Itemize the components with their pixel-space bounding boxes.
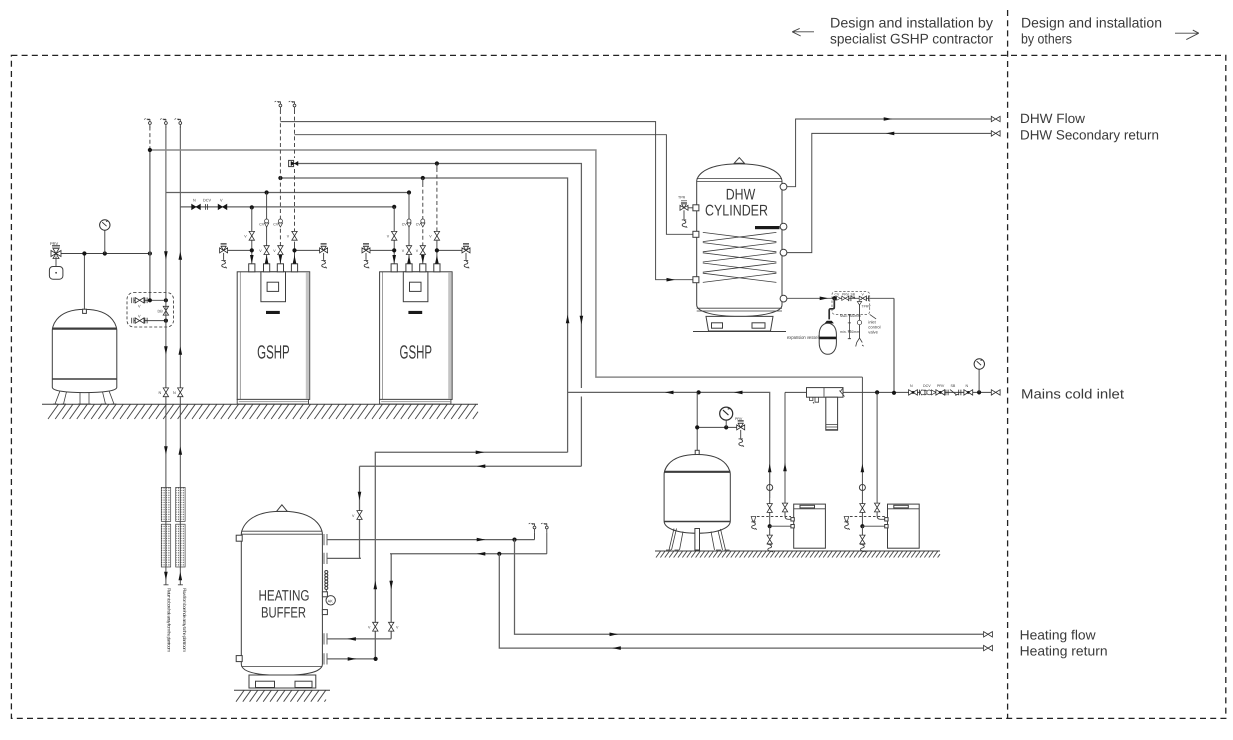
- small vessel / tundish box below PRV: [55, 257, 57, 267]
- wire: mains top-up down to unit A: [785, 392, 791, 519]
- wire: DHW primary return manifold y=134.7: [295, 135, 697, 235]
- wire: heating return from boundary: [499, 554, 983, 648]
- temperature & pressure relief valve on cylinder: [680, 201, 688, 211]
- drain below unit A tee: [769, 526, 771, 536]
- svg-text:PRV: PRV: [842, 293, 850, 297]
- buffer right small ports: [322, 592, 327, 597]
- svg-text:by others: by others: [1021, 31, 1072, 47]
- left ports: [693, 205, 699, 211]
- dashed separator line (contractor / others): [1007, 10, 1009, 718]
- inlet control valve dashed enclosure: [832, 292, 870, 315]
- wire: ground loop expansion line y=253.5: [56, 253, 150, 255]
- flow arrows heating risers: [566, 315, 570, 324]
- wire: buffer hot inlet (from GSHP flow riser): [328, 466, 361, 558]
- boundary valve heating return: [984, 645, 993, 650]
- wire: heating return manifold y=178: [280, 178, 567, 452]
- node: junction gauge stem: [103, 251, 107, 255]
- air vent pipe extensions at left manifold: [149, 127, 151, 151]
- wire: heating flow manifold y=163.5: [295, 164, 582, 467]
- wire: cold feed into cylinder: [787, 297, 832, 299]
- pipe GSHP2-1: [393, 207, 395, 264]
- pressure gauge (ground loop): [104, 230, 106, 254]
- wire: brine manifold y=206.9: [180, 206, 394, 208]
- wire: buffer lower port to heating return: [328, 554, 547, 639]
- node on cold feed: [832, 296, 836, 300]
- svg-text:DB: DB: [158, 310, 164, 314]
- filling loop dashed enclosure: [127, 293, 174, 327]
- relief valve PRV (ground loop): [51, 246, 61, 259]
- ground hatch under left tank and GSHP units: [42, 404, 478, 419]
- right ports: [780, 183, 787, 190]
- node and pressure gauge on mains: [977, 390, 981, 394]
- inlet group valves: [832, 297, 894, 299]
- wire: expansion branch from heating riser: [568, 392, 770, 498]
- wire: buffer top port to heating flow: [328, 539, 535, 541]
- svg-text:Max. 600mm: Max. 600mm: [840, 314, 861, 318]
- wire: branch to DHW expansion vessel: [829, 298, 834, 319]
- pipe GSHP2-4: [436, 168, 438, 243]
- svg-text:N: N: [910, 384, 913, 388]
- air vent on heating flow: [534, 532, 536, 540]
- svg-text:specialist GSHP contractor: specialist GSHP contractor: [830, 31, 993, 47]
- tundish for unit A: [757, 516, 791, 518]
- buffer right flanged ports: [324, 534, 327, 665]
- wire: tank stem up to expansion line: [83, 254, 85, 310]
- node: junction on pipe 149.9: [148, 251, 152, 255]
- svg-text:N: N: [159, 391, 162, 395]
- svg-text:CYLINDER: CYLINDER: [705, 203, 768, 220]
- svg-text:SB: SB: [851, 293, 856, 297]
- svg-text:PRV: PRV: [735, 417, 743, 421]
- air vent on heating return: [546, 532, 548, 554]
- borehole pipe end ticks: [164, 584, 183, 586]
- wire: cold feed riser down to mains: [893, 298, 895, 393]
- svg-text:N: N: [193, 199, 196, 203]
- unit A cabinet: [791, 504, 826, 548]
- filling loop top hose valve: [134, 299, 166, 301]
- dimension marks: [848, 315, 851, 339]
- heat exchanger coil: [703, 232, 777, 282]
- wire: vessel stem up to branch: [696, 392, 698, 454]
- pipe GSHP2-2: [408, 193, 410, 264]
- water softener / filter on mains: [807, 388, 845, 431]
- pipe GSHP1-2: [266, 193, 268, 264]
- wire: ground loop header y=150: [150, 150, 863, 377]
- svg-text:DHW Flow: DHW Flow: [1020, 111, 1085, 126]
- wire: heating connection down to unit A: [768, 464, 772, 473]
- boundary valve mains: [991, 390, 1000, 395]
- GSHP unit 2: [362, 219, 470, 404]
- leader and label: inlet control valve: [870, 314, 876, 319]
- header left arrow: [792, 28, 814, 36]
- wire: DHW primary flow manifold y=121.6: [280, 122, 696, 280]
- thermostat dial: [326, 596, 335, 605]
- svg-text:SB: SB: [951, 384, 956, 388]
- wire: borehole flow pipe x=165.9 down: [165, 193, 167, 585]
- tundish for unit B: [850, 516, 885, 518]
- wire: DHW flow to boundary: [787, 119, 991, 187]
- DHW expansion vessel (potable): [819, 321, 836, 355]
- node: junction tank stem: [82, 251, 86, 255]
- pipe GSHP1-4 with air vent and zone valve: [294, 110, 296, 158]
- svg-text:Heating flow: Heating flow: [1020, 628, 1096, 643]
- wire: pipe x=149.9 from manifold down to filling loop: [149, 150, 151, 300]
- svg-text:Design and installation: Design and installation: [1021, 15, 1162, 31]
- svg-text:TPR: TPR: [678, 196, 686, 200]
- wire: mains top-up down to unit B: [877, 392, 885, 519]
- svg-text:PRV: PRV: [50, 241, 58, 246]
- pipe GSHP2-3: [422, 183, 424, 243]
- svg-text:TPRV: TPRV: [862, 305, 872, 309]
- boundary valve DHW flow: [991, 116, 1000, 121]
- svg-text:HEATING: HEATING: [259, 587, 310, 604]
- svg-text:expansion vessel: expansion vessel: [787, 335, 819, 341]
- unit B cabinet: [885, 504, 920, 548]
- insulated sleeve on borehole return pipe: [176, 487, 185, 567]
- mains isolation and protection valves: [909, 390, 918, 395]
- pipe GSHP1-3 with air vent: [279, 110, 281, 243]
- ground hatch under heating buffer: [234, 690, 330, 702]
- svg-text:AK: AK: [328, 598, 334, 603]
- boundary valve DHW secondary return: [991, 131, 1000, 136]
- flow arrows on borehole pipes: [164, 251, 168, 260]
- svg-text:Flow from borehole array to th: Flow from borehole array to the plantroo…: [182, 588, 187, 652]
- immersion heater boss: [755, 226, 780, 229]
- thermostat pocket strip: [325, 571, 328, 593]
- wire: ground loop connection down to unit B: [861, 464, 865, 473]
- wire: mains line: [785, 391, 991, 393]
- wire: brine manifold y=192.5: [166, 192, 409, 194]
- svg-text:DHW: DHW: [726, 187, 756, 204]
- svg-text:N: N: [173, 391, 176, 395]
- GSHP unit 1: [220, 219, 328, 404]
- ground-loop expansion vessel (left tank): [52, 309, 117, 404]
- valves on brine manifold y=206.9: [192, 204, 201, 209]
- svg-text:BUFFER: BUFFER: [261, 605, 306, 622]
- ground line under DHW cylinder: [693, 331, 786, 333]
- filling loop bottom hose valve: [134, 320, 166, 322]
- node: mains tee to unit B: [875, 390, 879, 394]
- buffer skirt and feet: [249, 675, 316, 688]
- svg-text:DCV: DCV: [203, 199, 211, 203]
- svg-text:N: N: [966, 384, 969, 388]
- manifold junction nodes: [250, 205, 254, 209]
- pipe GSHP1-1: [251, 207, 253, 263]
- buffer left ports: [236, 535, 242, 541]
- wire: DHW secondary return: [787, 133, 991, 252]
- svg-text:Return to borehole array from: Return to borehole array from the plantr…: [167, 588, 172, 652]
- insulated sleeve on borehole flow pipe: [161, 487, 170, 567]
- isolating valves on borehole pipes: [163, 388, 168, 397]
- svg-text:Design and installation by: Design and installation by: [830, 15, 993, 31]
- flow arrow into coil: [667, 278, 676, 282]
- node: mains tee to DHW inlet group: [892, 391, 896, 395]
- filling loop double check valve (vertical): [163, 306, 168, 315]
- expansion manifold: gauge and PRV: [697, 426, 741, 428]
- svg-text:CV: CV: [835, 293, 840, 297]
- svg-text:Heating return: Heating return: [1020, 643, 1108, 658]
- ground hatch under heating expansion vessel and pressurisation units: [655, 551, 940, 558]
- svg-text:DHW Secondary return: DHW Secondary return: [1020, 128, 1159, 143]
- boundary valve heating flow: [984, 632, 993, 637]
- svg-text:Mains cold inlet: Mains cold inlet: [1021, 386, 1124, 401]
- svg-text:DCV: DCV: [923, 384, 931, 388]
- header right arrow: [1175, 30, 1199, 40]
- wire: heating flow out to boundary: [515, 540, 984, 635]
- cylinder skirt and feet: [706, 316, 773, 331]
- svg-text:min. 500mm: min. 500mm: [840, 330, 860, 334]
- node: junction pipe149.9 on header: [148, 148, 152, 152]
- wire: borehole return pipe x=180.3 down: [179, 207, 181, 585]
- wire: buffer return to GSHP (bottom port): [328, 452, 568, 659]
- svg-text:PRV: PRV: [937, 384, 945, 388]
- svg-text:valve: valve: [868, 330, 878, 335]
- relief discharge drop with trv and drain: [856, 302, 864, 347]
